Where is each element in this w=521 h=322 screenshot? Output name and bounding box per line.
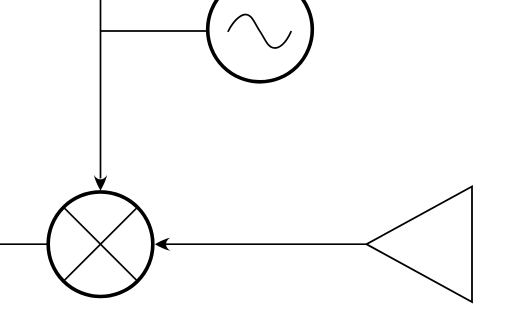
wire: mixer IF output to left image edge <box>0 243 49 245</box>
wire: junction to oscillator (horizontal segment at y=31) <box>101 30 210 32</box>
wire: amplifier output to mixer RF port <box>166 243 367 245</box>
wire: LO line, vertical from top edge down to mixer <box>100 0 102 179</box>
arrowhead into mixer RF port (points left) <box>155 238 171 251</box>
amplifier A1 (left-pointing triangle) <box>367 187 473 303</box>
mixer U2 (circle with inscribed X) <box>48 192 153 297</box>
oscillator U1 (sine-wave source circle, clipped at top) <box>208 0 313 82</box>
arrowhead into mixer LO port (points down) <box>94 175 107 191</box>
